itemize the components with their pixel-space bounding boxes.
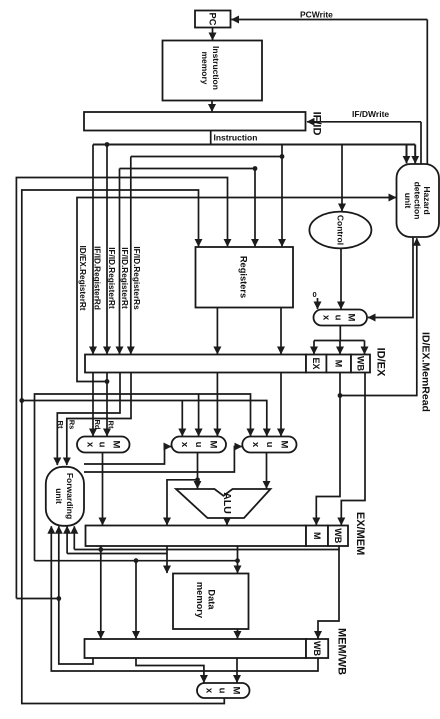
svg-text:u: u <box>217 688 228 694</box>
svg-text:WB: WB <box>333 528 343 543</box>
svg-text:ID/EX.MemRead: ID/EX.MemRead <box>420 332 432 412</box>
svg-text:WB: WB <box>356 356 366 371</box>
svg-text:Data: Data <box>207 589 217 610</box>
svg-text:WB: WB <box>312 641 322 656</box>
svg-text:PC: PC <box>208 13 218 26</box>
svg-text:EX/MEM: EX/MEM <box>354 512 366 555</box>
svg-text:u: u <box>193 442 204 448</box>
svg-text:ALU: ALU <box>221 492 233 514</box>
svg-text:Forwarding: Forwarding <box>65 473 75 519</box>
svg-text:u: u <box>333 315 344 321</box>
svg-text:M: M <box>231 687 242 695</box>
svg-text:memory: memory <box>195 582 205 619</box>
svg-text:Control: Control <box>335 215 345 245</box>
svg-text:Hazard: Hazard <box>422 186 432 214</box>
svg-text:x: x <box>321 315 332 321</box>
svg-text:IF/ID.RegisterRt: IF/ID.RegisterRt <box>120 247 129 309</box>
svg-text:M: M <box>111 441 122 449</box>
svg-text:x: x <box>250 442 261 448</box>
svg-text:ID/EX.RegisterRt: ID/EX.RegisterRt <box>78 245 87 310</box>
svg-text:0: 0 <box>313 290 317 299</box>
svg-text:unit: unit <box>403 193 413 209</box>
svg-text:PCWrite: PCWrite <box>300 10 333 20</box>
svg-text:ID/EX: ID/EX <box>375 348 387 377</box>
svg-text:Registers: Registers <box>239 256 249 298</box>
svg-text:memory: memory <box>200 51 210 84</box>
svg-text:Rt: Rt <box>56 421 65 429</box>
svg-text:IF/ID.RegisterRt: IF/ID.RegisterRt <box>107 247 116 309</box>
svg-text:x: x <box>179 442 190 448</box>
svg-text:IF/ID.RegisterRd: IF/ID.RegisterRd <box>93 246 102 310</box>
svg-text:Rt: Rt <box>107 421 116 429</box>
svg-text:Rd: Rd <box>93 420 102 430</box>
svg-text:detection: detection <box>413 182 423 220</box>
svg-text:M: M <box>346 314 357 322</box>
svg-text:MEM/WB: MEM/WB <box>336 628 348 675</box>
svg-text:u: u <box>97 442 108 448</box>
svg-text:unit: unit <box>54 488 64 504</box>
svg-text:u: u <box>264 442 275 448</box>
svg-text:M: M <box>334 360 344 368</box>
svg-text:M: M <box>208 441 219 449</box>
svg-text:IF/ID: IF/ID <box>311 112 323 136</box>
svg-text:Instruction: Instruction <box>214 133 258 143</box>
svg-text:EX: EX <box>311 357 321 369</box>
svg-text:M: M <box>312 532 322 540</box>
svg-text:IF/ID.RegisterRs: IF/ID.RegisterRs <box>132 246 141 310</box>
svg-text:Instruction: Instruction <box>211 46 221 90</box>
svg-text:M: M <box>279 441 290 449</box>
svg-text:x: x <box>204 688 215 694</box>
svg-text:x: x <box>85 442 96 448</box>
svg-text:Rs: Rs <box>67 420 76 430</box>
svg-text:IF/DWrite: IF/DWrite <box>352 109 389 119</box>
